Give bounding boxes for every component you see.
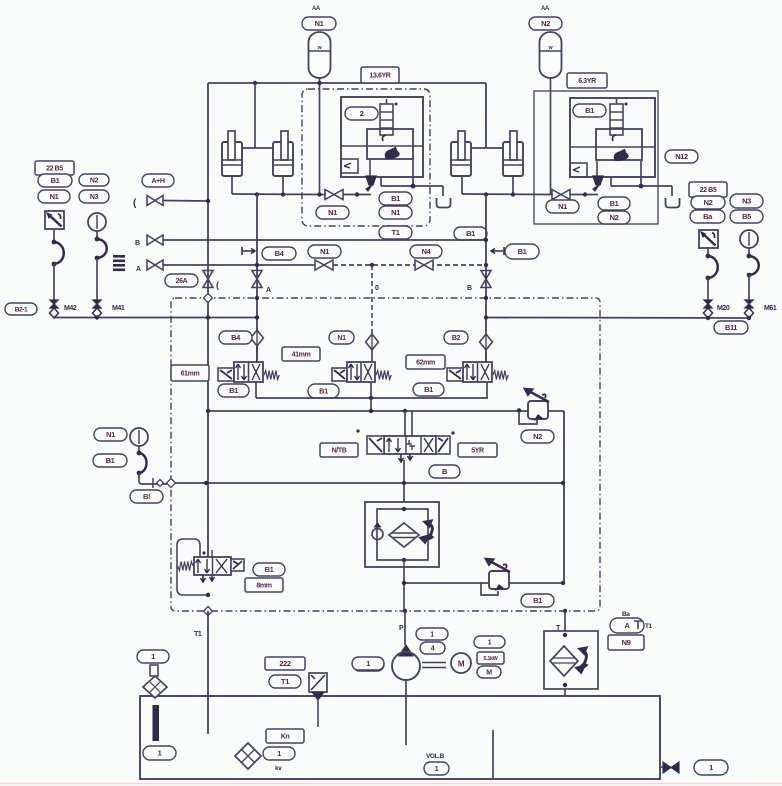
svg-text:1: 1 [158,749,162,758]
svg-text:13.6YR: 13.6YR [370,73,391,80]
svg-text:B1: B1 [533,596,542,605]
svg-text:AA: AA [312,6,321,12]
svg-text:1: 1 [366,659,370,668]
svg-text:N1: N1 [315,19,324,28]
svg-text:5YR: 5YR [471,448,484,455]
svg-text:B1: B1 [265,565,274,574]
svg-text:M: M [486,670,492,677]
svg-text:22 B5: 22 B5 [700,187,717,194]
svg-text:A: A [266,287,271,294]
svg-text:41mm: 41mm [292,352,311,359]
svg-text:B1: B1 [585,106,594,115]
svg-text:T1: T1 [392,228,400,237]
svg-text:B1: B1 [51,176,60,185]
svg-text:N1: N1 [50,192,59,201]
svg-text:VOL.B: VOL.B [426,753,445,760]
svg-text:5.1kW: 5.1kW [484,656,499,662]
svg-text:M41: M41 [112,305,125,312]
svg-text:0: 0 [375,285,379,292]
svg-text:T1: T1 [645,623,653,630]
svg-text:N1: N1 [558,202,567,211]
svg-text:Kn: Kn [281,734,290,741]
svg-text:AA: AA [541,6,550,12]
svg-text:B: B [467,285,472,292]
svg-text:1: 1 [435,766,439,773]
svg-text:6.3YR: 6.3YR [578,78,596,85]
svg-text:B1: B1 [466,229,475,238]
svg-text:A: A [136,266,141,273]
svg-text:N1: N1 [328,208,337,217]
svg-text:kv: kv [275,765,282,772]
svg-text:w: w [317,45,322,51]
svg-text:N12: N12 [675,152,688,161]
svg-text:N2: N2 [541,19,550,28]
svg-text:B1: B1 [391,194,400,203]
svg-text:B1: B1 [106,456,115,465]
svg-text:1: 1 [277,749,281,758]
svg-text:B5: B5 [742,212,751,221]
svg-text:N4: N4 [422,247,432,256]
svg-text:2: 2 [360,109,364,118]
svg-text:w: w [548,45,553,51]
svg-text:N2: N2 [704,198,713,207]
svg-text:M: M [458,660,465,669]
svg-text:B2: B2 [452,335,461,342]
svg-text:N1: N1 [106,430,115,439]
svg-text:B1: B1 [424,385,433,394]
svg-text:1: 1 [151,652,155,661]
svg-text:N3: N3 [742,197,751,206]
svg-text:B11: B11 [725,323,737,332]
svg-text:(: ( [216,280,219,290]
svg-text:N1: N1 [337,335,346,342]
svg-text:B4: B4 [231,333,241,342]
svg-text:N9: N9 [622,638,631,647]
svg-text:T1: T1 [194,631,202,638]
svg-text:B1: B1 [319,387,328,396]
svg-text:Ba: Ba [622,611,630,618]
svg-text:T1: T1 [281,677,289,686]
svg-text:1: 1 [709,763,713,772]
svg-text:A+H: A+H [152,178,165,185]
svg-text:N1: N1 [320,247,329,256]
svg-text:B1: B1 [229,386,238,395]
svg-text:26A: 26A [176,278,188,285]
svg-text:N2: N2 [610,213,619,222]
svg-text:N2: N2 [533,432,542,441]
svg-text:62mm: 62mm [416,360,435,367]
svg-text:P: P [399,625,404,632]
svg-text:4: 4 [431,646,435,653]
svg-text:1: 1 [488,640,492,647]
svg-text:N/TB: N/TB [332,448,347,455]
svg-text:B1: B1 [610,199,619,208]
svg-text:M42: M42 [64,305,77,312]
svg-text:N2: N2 [90,178,99,185]
svg-text:N3: N3 [90,194,99,201]
svg-text:61mm: 61mm [181,371,200,378]
svg-text:B!: B! [143,492,150,501]
svg-text:B2-1: B2-1 [15,306,28,313]
svg-text:222: 222 [279,659,291,668]
svg-text:B4: B4 [275,249,285,258]
svg-text:8mm: 8mm [256,583,271,590]
svg-text:22 B5: 22 B5 [46,166,63,173]
svg-text:B: B [135,240,140,247]
svg-text:N1: N1 [391,208,400,217]
svg-text:1: 1 [430,632,434,639]
svg-text:Ba: Ba [703,212,713,221]
svg-text:B1: B1 [518,247,527,256]
svg-text:M20: M20 [717,305,730,312]
svg-text:M61: M61 [764,305,777,312]
